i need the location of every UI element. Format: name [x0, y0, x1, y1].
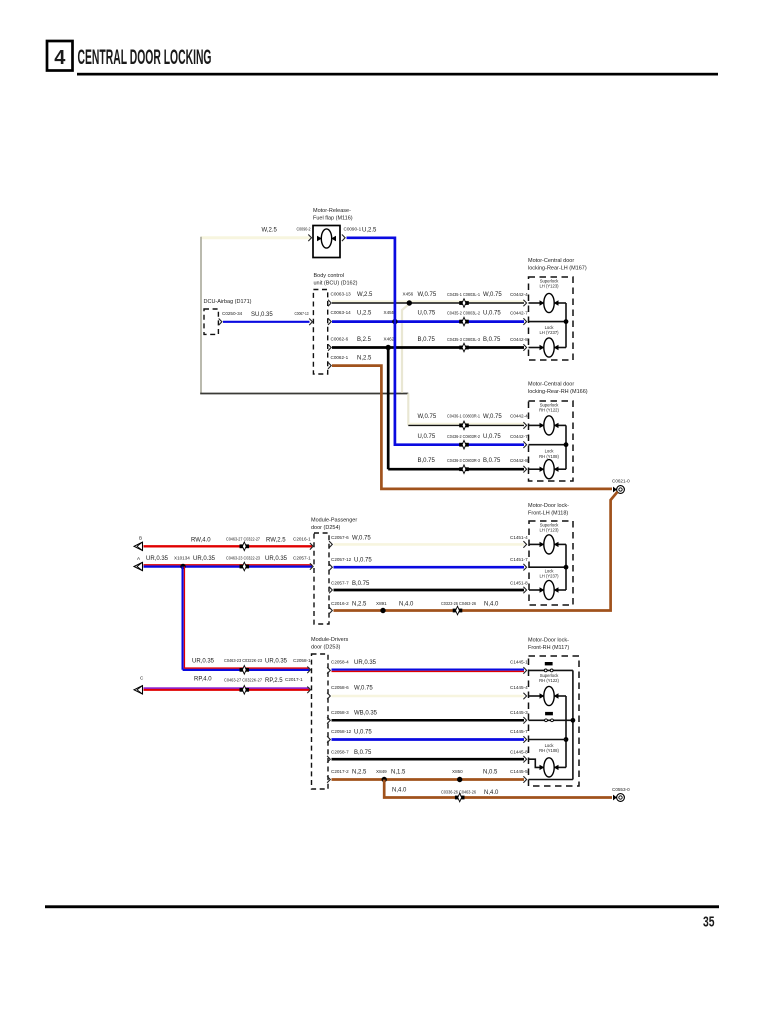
wire RW4.0 red [144, 545, 313, 547]
svg-text:C2017-2: C2017-2 [331, 769, 349, 774]
wire UR into drivers door [183, 669, 310, 671]
svg-text:U,2.5: U,2.5 [362, 228, 377, 234]
svg-text:UR,0.35: UR,0.35 [192, 659, 215, 665]
BCU box [313, 290, 327, 375]
svg-text:C0442-7: C0442-7 [510, 310, 528, 315]
wire N brown drivers row [332, 778, 525, 781]
svg-text:RH (Y122): RH (Y122) [539, 408, 559, 413]
header chapter number box 4 [47, 41, 73, 71]
svg-text:N,2.5: N,2.5 [352, 602, 367, 608]
M118 internal wiring [529, 543, 541, 545]
wire SU0.35 blue [223, 321, 310, 323]
wire W cream drop to rear-RH W row [407, 394, 409, 426]
svg-text:B: B [139, 536, 142, 541]
svg-text:C0463-27 C0322K-27: C0463-27 C0322K-27 [224, 677, 262, 682]
svg-text:C1445-5: C1445-5 [510, 769, 528, 774]
svg-text:Body control: Body control [314, 273, 345, 279]
motor M116 symbol [317, 236, 322, 241]
svg-text:RH (Y108): RH (Y108) [539, 454, 559, 459]
svg-text:C0062-1: C0062-1 [331, 355, 349, 360]
svg-text:N,2.5: N,2.5 [357, 356, 372, 362]
svg-text:C0323-26 C0463-26: C0323-26 C0463-26 [441, 601, 476, 606]
svg-text:C2057-6: C2057-6 [331, 535, 349, 540]
svg-text:C2016-2: C2016-2 [331, 601, 349, 606]
svg-text:C1445-8: C1445-8 [510, 749, 528, 754]
svg-text:Motor-Door lock-: Motor-Door lock- [528, 503, 569, 509]
svg-text:C2057-7: C2057-7 [331, 580, 349, 585]
pins C1451 M118 [523, 541, 526, 548]
M117 internal row4 [529, 739, 567, 741]
connector C0436-2 C0803R-2 [459, 443, 463, 447]
svg-text:B,2.5: B,2.5 [357, 337, 372, 343]
svg-text:Motor-Door lock-: Motor-Door lock- [528, 638, 569, 644]
svg-text:B,0.75: B,0.75 [483, 337, 501, 343]
svg-text:C0435-2 C0803L-2: C0435-2 C0803L-2 [447, 310, 480, 315]
wire W0.75 cream drivers [332, 695, 525, 698]
pins C0442 M167 [523, 300, 526, 307]
M117 vertical V1 [572, 670, 574, 779]
svg-text:RP,2.5: RP,2.5 [265, 678, 283, 684]
pins C1445 M117 [523, 667, 526, 674]
svg-text:4: 4 [54, 47, 66, 69]
M166 internal wiring [529, 424, 542, 426]
svg-text:U,0.75: U,0.75 [354, 558, 372, 564]
svg-text:UR,0.35: UR,0.35 [265, 556, 288, 562]
wire UR0.35 drivers to M117 [332, 668, 525, 670]
pins C0442 M166 [523, 422, 526, 429]
svg-text:C0436-1 C0803R-1: C0436-1 C0803R-1 [447, 414, 480, 419]
svg-text:C0062-6: C0062-6 [331, 337, 349, 342]
header underline [77, 73, 718, 76]
svg-text:C1451-8: C1451-8 [510, 580, 528, 585]
svg-text:C0463-27 C0322-27: C0463-27 C0322-27 [226, 536, 260, 541]
svg-text:RW,4.0: RW,4.0 [191, 538, 211, 544]
svg-text:UR,0.35: UR,0.35 [193, 556, 216, 562]
svg-text:B,0.75: B,0.75 [354, 750, 372, 756]
motor M118 box [529, 521, 573, 605]
wire U0.75 blue drivers [332, 738, 525, 741]
svg-text:C0090-2: C0090-2 [297, 227, 311, 232]
wire WB0.35 drivers [332, 719, 525, 722]
svg-text:N,4.0: N,4.0 [392, 788, 407, 794]
svg-text:DCU-Airbag (D171): DCU-Airbag (D171) [204, 299, 252, 305]
wire B0.75 black passenger [334, 589, 525, 592]
svg-text:C1445-7: C1445-7 [510, 729, 528, 734]
svg-text:door (D253): door (D253) [311, 645, 341, 651]
wire W cream drop from X456 [402, 304, 409, 393]
svg-text:RH (Y122): RH (Y122) [539, 678, 559, 683]
svg-text:WB,0.35: WB,0.35 [354, 711, 378, 717]
footer rule [45, 905, 719, 908]
svg-text:C2058-1: C2058-1 [293, 658, 311, 663]
connector C0436-1 C0803R-1 [459, 423, 463, 427]
svg-text:U,0.75: U,0.75 [418, 311, 436, 317]
svg-text:U,0.75: U,0.75 [483, 434, 501, 440]
svg-text:W,2.5: W,2.5 [357, 292, 373, 298]
svg-text:C0442-4: C0442-4 [510, 292, 528, 297]
svg-text:W,0.75: W,0.75 [483, 292, 502, 298]
svg-text:C2016-1: C2016-1 [293, 536, 311, 541]
svg-text:C2057-1: C2057-1 [293, 555, 311, 560]
svg-text:C2058-4: C2058-4 [331, 660, 349, 665]
svg-text:Module-Drivers: Module-Drivers [311, 637, 349, 643]
svg-text:Front-RH (M117): Front-RH (M117) [528, 645, 569, 651]
module D254 box [314, 533, 329, 624]
svg-text:RW,2.5: RW,2.5 [266, 538, 286, 544]
svg-text:X10134: X10134 [174, 555, 190, 560]
wire N brown passenger to eyelet C0621-0 [334, 492, 618, 611]
svg-text:C0250-34: C0250-34 [222, 311, 243, 316]
connector C0436-3 C0803R-3 [459, 467, 463, 471]
svg-text:B,0.75: B,0.75 [483, 458, 501, 464]
wire U0.75 blue passenger [334, 566, 525, 569]
svg-text:C1451-4: C1451-4 [510, 535, 528, 540]
M117 internal row3 switch [529, 719, 573, 721]
svg-text:LH (Y123): LH (Y123) [539, 284, 559, 289]
svg-text:N,2.5: N,2.5 [352, 770, 367, 776]
connector C0435-3 C0803L-3 [459, 346, 463, 350]
svg-text:Module-Passenger: Module-Passenger [311, 518, 357, 524]
svg-text:LH (Y237): LH (Y237) [539, 330, 559, 335]
svg-text:C0435-3 C0803L-3: C0435-3 C0803L-3 [447, 337, 480, 342]
motor M167 box [529, 277, 574, 360]
svg-text:X456: X456 [403, 292, 414, 297]
wire U2.5 blue fuel flap to rear-RH U row [347, 238, 525, 445]
svg-text:LH (Y237): LH (Y237) [539, 574, 559, 579]
M117 superlock motor [529, 695, 542, 697]
svg-text:35: 35 [703, 914, 715, 931]
svg-text:C1445-3: C1445-3 [510, 710, 528, 715]
svg-text:X850: X850 [452, 769, 463, 774]
svg-text:B,0.75: B,0.75 [418, 337, 436, 343]
svg-text:UR,0.35: UR,0.35 [265, 659, 288, 665]
wire W row cream+dark to rear-LH [332, 300, 524, 302]
connector C0435-1 C0803L-1 [459, 301, 463, 305]
svg-text:C0442-7: C0442-7 [510, 434, 528, 439]
wire W2.5 left vertical grey [200, 237, 202, 394]
svg-text:X891: X891 [376, 601, 387, 606]
svg-text:C2058-12: C2058-12 [331, 729, 352, 734]
svg-text:Motor-Central door: Motor-Central door [528, 382, 574, 388]
svg-text:C1445-1: C1445-1 [510, 660, 528, 665]
M117 lock motor [529, 759, 542, 767]
svg-text:W,0.75: W,0.75 [354, 686, 373, 692]
svg-text:CENTRAL DOOR LOCKING: CENTRAL DOOR LOCKING [78, 45, 212, 69]
svg-text:Motor-Release-: Motor-Release- [313, 208, 351, 214]
M117 internal row6 [529, 779, 573, 781]
svg-text:unit (BCU) (D162): unit (BCU) (D162) [314, 281, 358, 287]
svg-text:U,2.5: U,2.5 [357, 311, 372, 317]
M117 internal row1 switch [529, 669, 573, 671]
wire B0.75 black drivers [332, 758, 525, 761]
svg-text:C0063-14: C0063-14 [331, 310, 352, 315]
svg-text:LH (Y123): LH (Y123) [539, 528, 559, 533]
wire N2.5 brown to eyelet C0621-0 [332, 366, 612, 489]
svg-text:RH (Y108): RH (Y108) [539, 748, 559, 753]
wire W2.5 fuel flap left cream [201, 236, 310, 239]
svg-text:N,4.0: N,4.0 [484, 602, 499, 608]
wire UR vertical to drivers door [182, 567, 184, 670]
svg-text:W,2.5: W,2.5 [262, 228, 278, 234]
svg-text:B,0.75: B,0.75 [418, 458, 436, 464]
svg-text:U,0.75: U,0.75 [354, 730, 372, 736]
svg-text:C1451-7: C1451-7 [510, 557, 528, 562]
harness arrow B [134, 542, 143, 550]
svg-text:C2058-6: C2058-6 [331, 685, 349, 690]
svg-text:C0436-3 C0803R-3: C0436-3 C0803R-3 [447, 458, 480, 463]
svg-text:N,4.0: N,4.0 [399, 602, 414, 608]
connector C0435-2 C0803L-2 [459, 320, 463, 324]
module D253 box [312, 654, 329, 789]
harness arrow A [134, 562, 143, 570]
svg-text:C0553-0: C0553-0 [612, 787, 630, 792]
svg-text:locking-Rear-RH (M166): locking-Rear-RH (M166) [528, 389, 588, 395]
svg-text:Motor-Central door: Motor-Central door [528, 258, 574, 264]
svg-text:C2058-3: C2058-3 [331, 710, 349, 715]
svg-text:C0336-26 C0463-26: C0336-26 C0463-26 [441, 790, 476, 795]
motor M116 box [313, 226, 340, 258]
svg-text:N,1.5: N,1.5 [391, 770, 406, 776]
svg-text:C0463-23 C0322-23: C0463-23 C0322-23 [226, 555, 260, 560]
svg-text:C0442-8: C0442-8 [510, 458, 528, 463]
svg-text:C0067-13: C0067-13 [295, 311, 309, 316]
svg-text:N,4.0: N,4.0 [484, 790, 499, 796]
svg-text:W,0.75: W,0.75 [418, 414, 437, 420]
svg-text:C0436-2 C0803R-2: C0436-2 C0803R-2 [447, 434, 480, 439]
svg-text:door (D254): door (D254) [311, 525, 341, 531]
wire B row black to rear-LH [332, 346, 524, 349]
harness arrow C [134, 686, 143, 694]
DCU-Airbag box [204, 309, 218, 334]
M167 internal wiring [529, 302, 542, 304]
svg-text:SU,0.35: SU,0.35 [251, 312, 273, 318]
svg-text:C0463-23 C0322K-23: C0463-23 C0322K-23 [224, 658, 262, 663]
wire RP4.0 red+purple [144, 689, 310, 691]
svg-text:X849: X849 [376, 769, 387, 774]
wire rear-RH W row cream+dark [408, 423, 524, 425]
wire B vertical to rear-RH [387, 348, 390, 470]
svg-text:Front-LH (M118): Front-LH (M118) [528, 511, 568, 517]
svg-text:W,0.75: W,0.75 [483, 414, 502, 420]
svg-text:RP,4.0: RP,4.0 [194, 677, 212, 683]
svg-text:U,0.75: U,0.75 [483, 311, 501, 317]
svg-text:B,0.75: B,0.75 [352, 581, 370, 587]
svg-text:X462: X462 [384, 337, 395, 342]
svg-text:C1445-4: C1445-4 [510, 685, 528, 690]
svg-text:C0090-1: C0090-1 [344, 227, 362, 232]
svg-text:W,0.75: W,0.75 [352, 535, 371, 541]
wire N4.0 branch to eyelet C0553-0 [384, 780, 612, 798]
wire W0.75 cream passenger [334, 543, 525, 546]
M117 vertical V2 [565, 696, 567, 767]
motor M166 box [529, 401, 574, 481]
svg-text:C2017-1: C2017-1 [285, 677, 303, 682]
svg-text:locking-Rear-LH (M167): locking-Rear-LH (M167) [528, 266, 587, 272]
svg-text:W,0.75: W,0.75 [418, 292, 437, 298]
svg-text:UR,0.35: UR,0.35 [146, 556, 169, 562]
svg-text:N,0.5: N,0.5 [483, 770, 498, 776]
svg-text:U,0.75: U,0.75 [418, 434, 436, 440]
svg-text:C0435-1 C0803L-1: C0435-1 C0803L-1 [447, 292, 480, 297]
svg-text:Fuel flap (M116): Fuel flap (M116) [313, 216, 353, 222]
svg-text:C2057-12: C2057-12 [331, 557, 352, 562]
wire rear-RH B row [388, 468, 524, 471]
svg-text:C0063-13: C0063-13 [331, 292, 352, 297]
svg-text:X455: X455 [384, 310, 395, 315]
svg-text:C2058-7: C2058-7 [331, 749, 349, 754]
svg-text:C0442-8: C0442-8 [510, 337, 528, 342]
svg-text:UR,0.35: UR,0.35 [354, 660, 377, 666]
wire UR0.35 blue+red [144, 565, 313, 567]
wire W2.5 bottom run dark [200, 393, 408, 395]
svg-text:C0442-4: C0442-4 [510, 414, 528, 419]
wire U row blue to rear-LH [332, 320, 524, 323]
svg-text:C0621-0: C0621-0 [612, 479, 630, 484]
motor M117 box [529, 656, 580, 786]
